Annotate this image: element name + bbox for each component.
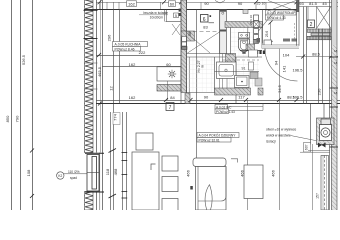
dim line 88.5: [296, 56, 338, 58]
sofa back: [193, 158, 226, 167]
svg-text:10x30cm: 10x30cm: [150, 15, 164, 19]
boiler top box: [321, 119, 331, 125]
sofa tick: [190, 186, 193, 190]
bathroom pier hatched: [226, 54, 236, 65]
lintel mark: [243, 10, 248, 14]
wc door leaf: [264, 40, 272, 47]
toilet drain mark: [242, 52, 245, 54]
door swing small: [172, 24, 180, 35]
svg-text:117: 117: [238, 95, 245, 100]
svg-text:463.5: 463.5: [97, 66, 102, 77]
boxed dim 24: [181, 0, 187, 7]
svg-text:774: 774: [113, 113, 118, 120]
svg-text:94: 94: [274, 60, 279, 65]
toilet tank: [239, 33, 250, 39]
wc door sill line: [240, 50, 262, 52]
kitchen island: [132, 152, 159, 210]
svg-text:104: 104: [283, 52, 290, 57]
svg-text:A.0.05 KUCHNIA: A.0.05 KUCHNIA: [115, 43, 142, 47]
svg-text:18: 18: [334, 91, 338, 95]
dashed projection line: [187, 31, 220, 33]
left dimension chain: [12, 0, 33, 210]
shaft dark caps: [220, 10, 226, 12]
svg-text:spad: spad: [70, 176, 77, 180]
arrow mark: [215, 1, 225, 4]
vestibule right pier: [297, 0, 300, 12]
kitchen dim chain verticals: [111, 10, 127, 211]
toilet bowl: [239, 39, 250, 52]
dim line ticks top: [98, 0, 299, 4]
box label 6: [201, 15, 209, 23]
table: [244, 165, 263, 199]
sofa seat line: [198, 167, 226, 202]
top dim stubs: [100, 2, 267, 10]
shaft: [220, 10, 227, 54]
wall socket boxes: [182, 37, 187, 42]
central wall hatched: [181, 0, 187, 31]
sofa armrest line: [197, 167, 199, 211]
svg-text:157: 157: [316, 193, 320, 199]
svg-text:6: 6: [203, 17, 206, 23]
bathroom floor tiles: [228, 61, 260, 88]
central wall face lines: [181, 0, 197, 210]
svg-text:2: 2: [310, 22, 313, 28]
corridor south wall line: [187, 92, 215, 94]
chain ticks: [109, 149, 128, 199]
entry door leaf: [264, 49, 266, 53]
top right corner lines: [299, 6, 338, 8]
svg-text:18: 18: [334, 49, 338, 53]
island corner mark: [151, 164, 156, 170]
svg-text:12: 12: [109, 86, 114, 91]
shower tray: [217, 62, 237, 79]
svg-text:110 /2%: 110 /2%: [68, 170, 80, 174]
svg-text:230: 230: [317, 88, 322, 95]
window W1 sill lines: [85, 153, 104, 192]
door hinge marks: [256, 51, 258, 55]
central wall lower: [181, 41, 187, 93]
central wall block: [181, 31, 195, 41]
svg-text:wokół w warstwie: wokół w warstwie: [266, 134, 291, 138]
boxed dim 60: [169, 1, 176, 7]
dash mark: [209, 22, 215, 24]
wall tie marks: [84, 10, 98, 38]
window W1 frame: [87, 155, 99, 192]
svg-text:81.5: 81.5: [309, 1, 318, 6]
kitchen dim line 162/84: [96, 100, 340, 102]
entry door swing: [265, 49, 298, 82]
svg-text:526.5: 526.5: [21, 54, 26, 65]
box label 2: [308, 20, 315, 28]
drain pipe symbol circle: [57, 172, 64, 179]
svg-text:91: 91: [242, 67, 246, 71]
counter line: [215, 71, 260, 73]
door X above: [268, 1, 296, 12]
sofa body: [196, 167, 227, 211]
chair 1: [162, 156, 178, 171]
svg-text:18: 18: [334, 61, 338, 65]
boiler circle: [321, 128, 330, 137]
boiler closet: [311, 104, 325, 145]
svg-text:K2: K2: [58, 174, 62, 178]
svg-text:88.5: 88.5: [287, 95, 296, 100]
small fixtures left column: [249, 50, 258, 57]
dim line L3: [32, 0, 34, 210]
boiler niche hatch: [317, 118, 335, 145]
corridor wall lines: [187, 53, 237, 55]
dim ticks on 100 line: [98, 98, 299, 106]
corner mark tv: [231, 159, 238, 163]
svg-text:25.6: 25.6: [265, 31, 269, 37]
svg-text:790: 790: [15, 115, 20, 122]
svg-text:162: 162: [129, 62, 136, 67]
wc floor tiles: [231, 28, 256, 57]
pipe junction dot: [221, 73, 223, 75]
boxed dim 162: [127, 1, 137, 7]
dim line L1: [11, 0, 13, 210]
radiator top right: [307, 29, 331, 40]
boiler body: [320, 125, 332, 141]
right mid verticals: [304, 7, 323, 104]
left exterior wall insulation upper: [85, 0, 94, 153]
kitchen cabinet square: [136, 133, 153, 150]
svg-text:A.0.03 WIATROŁAP: A.0.03 WIATROŁAP: [267, 11, 296, 15]
bathroom west wall: [214, 57, 216, 93]
svg-text:466: 466: [271, 169, 276, 176]
svg-text:5: 5: [175, 14, 177, 18]
wc south wall hatch piece: [246, 44, 255, 51]
svg-text:25.6 10: 25.6 10: [249, 15, 253, 25]
svg-text:83: 83: [203, 25, 208, 30]
tick marks on L3: [30, 149, 34, 199]
svg-text:196.5: 196.5: [292, 68, 303, 73]
kitchen wall stub hatched: [157, 85, 187, 92]
svg-text:POW.uż 8.46: POW.uż 8.46: [115, 47, 135, 51]
corridor door swing: [188, 32, 220, 53]
right wall ticks: [330, 57, 339, 147]
window W1 glazing: [92, 157, 97, 190]
svg-text:60: 60: [166, 62, 171, 67]
kitchen dim line 222: [96, 55, 181, 57]
wc room label: [215, 105, 235, 114]
corridor floor tiles: [187, 58, 214, 93]
svg-text:466: 466: [240, 169, 245, 176]
wc right wall line: [247, 28, 249, 51]
window W1 mullion: [87, 172, 99, 174]
svg-text:93: 93: [299, 1, 304, 6]
svg-text:25 10: 25 10: [257, 1, 266, 5]
svg-text:7: 7: [169, 105, 172, 111]
door jamb marks: [179, 9, 181, 12]
svg-text:A.0.04 POKÓJ DZIENNY: A.0.04 POKÓJ DZIENNY: [199, 133, 237, 138]
wc east wall lines: [262, 10, 264, 44]
svg-text:162: 162: [128, 1, 135, 6]
left exterior wall insulation lower: [85, 192, 94, 211]
chair 3: [162, 199, 178, 214]
living room axis lines: [248, 49, 280, 211]
svg-text:84: 84: [170, 95, 175, 100]
chair 2: [162, 177, 178, 192]
bathroom wall line: [235, 57, 237, 104]
meter column boxes: [254, 15, 259, 21]
vestibule label: [256, 10, 296, 46]
left wall inner leaf lines: [97, 0, 103, 210]
radiator living room: [321, 156, 329, 211]
dark dot: [210, 15, 212, 17]
right exterior wall: [332, 0, 338, 210]
label 607 boxed: [304, 143, 311, 153]
svg-text:607: 607: [304, 144, 308, 150]
wc wall hatched: [225, 22, 263, 28]
svg-text:90: 90: [204, 95, 209, 100]
upper cabinet dashed: [222, 59, 259, 61]
svg-text:296: 296: [107, 34, 112, 41]
svg-text:88.5: 88.5: [312, 51, 321, 56]
svg-text:45: 45: [322, 1, 327, 6]
svg-text:60: 60: [170, 1, 175, 6]
svg-text:POW.uż 32.61: POW.uż 32.61: [199, 138, 220, 142]
bathroom south wall hatch: [215, 88, 251, 95]
north wall line: [84, 9, 299, 11]
corridor west line: [189, 57, 191, 93]
washbasin vanity: [235, 76, 250, 88]
shaft west line: [219, 10, 221, 54]
shaft vent circle: [222, 12, 224, 14]
note leader: [291, 136, 319, 142]
sofa leaf cushion: [205, 185, 212, 211]
svg-text:108: 108: [26, 169, 31, 176]
dim line L2: [20, 0, 22, 210]
radiator pipe line: [312, 144, 314, 210]
svg-text:466: 466: [186, 169, 191, 176]
main wall line: [96, 103, 340, 105]
label 774 boxed: [113, 113, 121, 125]
window X mark: [317, 7, 332, 29]
svg-text:141: 141: [282, 65, 287, 72]
svg-text:90: 90: [238, 1, 243, 6]
vestibule partition line: [166, 21, 182, 23]
svg-text:otwór ⌀10 w wylewce: otwór ⌀10 w wylewce: [266, 128, 296, 132]
box label 5: [174, 13, 179, 18]
kitchen room label: [113, 42, 148, 52]
note text otwor: [266, 128, 296, 144]
svg-text:850: 850: [5, 115, 10, 122]
kitchen dim line vertical: [167, 81, 169, 100]
box label 7: [166, 103, 174, 111]
dark pier: [257, 38, 261, 43]
svg-text:m: m: [200, 65, 204, 68]
wc left wall: [230, 28, 232, 58]
cooktop: [157, 67, 181, 81]
living room label: [197, 133, 239, 143]
svg-text:118: 118: [105, 168, 110, 175]
svg-text:POW.uż 4.33: POW.uż 4.33: [267, 16, 286, 20]
vestibule south wall: [262, 45, 299, 49]
drain pipe leader: [64, 173, 87, 175]
top dimension line: [96, 2, 338, 4]
vestibule west jamb: [261, 28, 263, 49]
shelf: [229, 104, 264, 111]
threshold marks: [283, 39, 290, 42]
svg-text:222: 222: [139, 50, 146, 55]
counter line: [102, 66, 181, 68]
svg-text:A.0.02 WC: A.0.02 WC: [216, 105, 232, 109]
svg-text:izolacji: izolacji: [266, 140, 276, 144]
corridor corner hatch: [185, 93, 190, 104]
svg-text:162: 162: [129, 95, 136, 100]
radiator valve: [318, 143, 326, 148]
svg-text:90: 90: [204, 1, 209, 6]
dark box: [182, 47, 187, 50]
